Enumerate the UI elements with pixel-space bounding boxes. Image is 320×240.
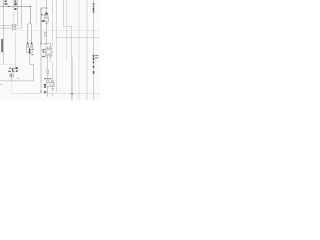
motor M1: right top pin <box>50 47 52 49</box>
label: fuse designator <box>42 20 45 22</box>
wire: top jumper y8 <box>41 7 47 9</box>
wire: vertical x71.4 from corner to bottom <box>70 27 72 100</box>
label: cable marks on x93.5 lower <box>93 61 94 63</box>
motor M1: housing <box>46 49 53 55</box>
wire: fuse feed drop <box>46 0 48 13</box>
node: arrowhead on trunk x41 mid <box>40 43 42 45</box>
wire: split to right pin <box>31 22 32 42</box>
wire: split to left pin <box>28 22 31 42</box>
wire: switch drop to ground rail <box>11 77 13 81</box>
motor M1: left top pin <box>46 47 48 49</box>
connector C3: left pin terminal of horn <box>27 43 29 45</box>
wire: horn ground drop <box>30 53 34 81</box>
wire: dark vertical trunk x41 <box>40 8 42 43</box>
wire: vertical feeding y28 rail <box>20 0 22 28</box>
wire: drop from top rail <box>30 6 32 22</box>
motor M1: rotor circle <box>47 50 52 55</box>
connector C3: right pin terminal of horn <box>31 43 33 45</box>
wire: left vertical bus <box>3 0 5 65</box>
wire: left edge stub y84.6 <box>0 84 3 86</box>
pump M2: rotor circle <box>50 83 53 86</box>
wire: faint long vertical x52.6 <box>52 0 54 46</box>
wire: horizontal rail y37.7 right half <box>57 37 100 39</box>
wire: long vertical x87 <box>86 0 88 100</box>
label: top-left wire code 2 <box>5 3 8 5</box>
wire: horizontal top rail <box>0 5 31 7</box>
wire: faint long vertical x79 <box>78 0 80 100</box>
pump M2: left pin box <box>47 80 49 82</box>
wire: pump right drop below rail <box>52 94 54 97</box>
component HORN: body outline <box>26 47 33 52</box>
wire: dotted stub row y64.5 <box>1 64 14 66</box>
node: junction top rail / drop wire <box>30 6 31 7</box>
label: tiny text right of x93.5 <box>95 55 99 56</box>
switch S1: bottom-left component box <box>10 74 14 77</box>
pump M2: right pin box <box>52 80 54 82</box>
wire: pump right drop with terminal bar <box>52 86 54 88</box>
connector C4: inline connector on motor ground <box>47 70 49 73</box>
label: top-left wire code 1 <box>5 1 7 3</box>
label: text above bottom pump <box>44 78 46 79</box>
wire: horizontal rail y25.5 <box>0 25 18 27</box>
wire: jog from fuse wire to motor <box>47 44 51 47</box>
component HORN: dark core bar <box>29 48 30 53</box>
node: splice on top rail <box>8 6 9 7</box>
wire: vertical feeding y25.5 rail <box>17 0 19 26</box>
motor M1: right bottom pin <box>50 55 52 57</box>
connector C3: right pin housing <box>31 45 33 47</box>
wire: dotted option line y30.7 <box>12 30 100 32</box>
wire: horizontal rail y28 <box>0 27 21 29</box>
label: small gray mark above rail <box>17 77 20 80</box>
label: codes along dashed line <box>14 1 16 3</box>
wire: fuse output down <box>46 23 48 43</box>
wire: dashed vertical to connector <box>13 0 15 24</box>
wire: companion vertical x72.7 lower half <box>72 57 74 100</box>
wire: motor ground drop <box>47 57 49 80</box>
label: wire code marks at jog <box>44 43 45 44</box>
wire: dashed vertical mid-left <box>15 33 17 67</box>
connector C2: inline connector label box on wire <box>44 32 46 36</box>
node: dot below fuse <box>46 23 47 24</box>
wire: faint long vertical x56.6 <box>56 0 58 92</box>
wire: very faint vertical x36.6 <box>36 0 38 26</box>
fuse F1: body <box>45 15 48 18</box>
fuse F1: lower housing <box>44 18 48 22</box>
wire: dotted drop from ground rail <box>11 82 13 94</box>
node: arrowhead on trunk x41 bottom <box>40 91 42 93</box>
wire: horn base plate <box>28 52 31 54</box>
wire: vertical x63.6 with corner <box>64 0 72 27</box>
wire: long vertical x93.5 <box>93 0 95 100</box>
label: pump designator rows <box>44 84 46 86</box>
node: junction at fuse feed <box>46 7 47 8</box>
node: dark crossings on dotted rail <box>71 93 73 94</box>
connector: 2-pin inline connector on left rails <box>13 24 16 27</box>
label: bottom-left text block row1 <box>9 68 11 69</box>
label: motor designator rows <box>42 49 44 50</box>
wire: ground rail y80.9 <box>0 80 34 82</box>
label: text right of horn <box>31 49 33 50</box>
wire: dotted bottom rail y93.6 <box>12 93 100 95</box>
fuse F1: holder block top <box>45 13 48 15</box>
label: cable marks on x93.5 top <box>93 3 94 5</box>
label: pin number left of fuse <box>41 14 43 15</box>
connector C3: left pin housing <box>27 45 29 47</box>
motor M1: left bottom pin <box>46 55 48 57</box>
ground: left edge dark bus bar <box>1 39 2 52</box>
wire: right pin stub down <box>50 57 52 62</box>
pump M2: housing <box>46 83 54 87</box>
label: cable marks on x93.5 middle <box>93 55 94 57</box>
label: bottom-left text block row2 <box>8 71 11 73</box>
wire: pump left drop across dotted rail <box>47 86 49 96</box>
wire: faint long vertical x66.6 <box>66 0 68 60</box>
